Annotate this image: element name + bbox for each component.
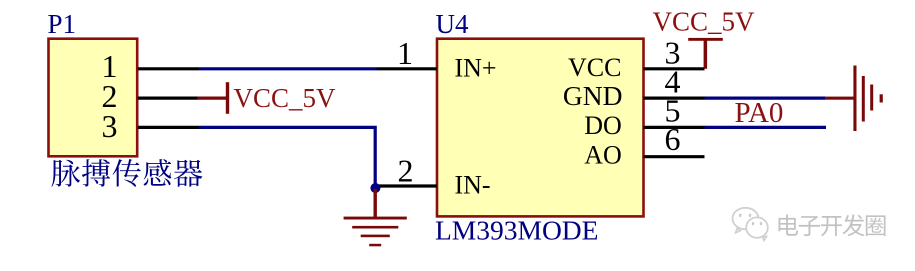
P1 pin 1 bbox=[102, 48, 200, 84]
watermark wechat logo bbox=[733, 208, 768, 241]
P1 pin 3 bbox=[102, 108, 200, 144]
U4 pin 6 AO bbox=[584, 121, 704, 169]
U4 pin 5 DO bbox=[584, 92, 704, 140]
U4 pin 4 GND bbox=[563, 64, 705, 111]
svg-text:DO: DO bbox=[584, 111, 622, 140]
svg-text:IN+: IN+ bbox=[455, 53, 497, 82]
svg-text:P1: P1 bbox=[48, 9, 77, 39]
power port signal ground (earth) bbox=[826, 66, 883, 132]
svg-text:U4: U4 bbox=[436, 9, 469, 39]
P1 part label 脉搏传感器 bbox=[52, 159, 203, 187]
connector P1 bbox=[49, 39, 138, 157]
svg-text:3: 3 bbox=[102, 108, 118, 144]
svg-text:6: 6 bbox=[665, 121, 681, 157]
wire P1 pin 3 down to junction bbox=[199, 127, 375, 186]
wire U4 DO net PA0 bbox=[705, 126, 827, 129]
U4 pin 2 IN- bbox=[379, 152, 491, 199]
wire U4 GND to signal ground bbox=[705, 96, 826, 99]
op-amp module U4 bbox=[437, 39, 644, 217]
svg-text:2: 2 bbox=[398, 152, 414, 188]
junction dot bbox=[370, 183, 380, 193]
svg-text:VCC_5V: VCC_5V bbox=[653, 6, 756, 36]
svg-text:VCC: VCC bbox=[568, 53, 621, 82]
U4 pin 1 IN+ bbox=[377, 35, 497, 82]
svg-text:1: 1 bbox=[397, 35, 413, 71]
P1 pin 2 bbox=[102, 78, 198, 114]
power port VCC_5V at P1 pin 2 bbox=[198, 82, 337, 114]
U4 pin 3 VCC bbox=[568, 34, 704, 82]
svg-text:VCC_5V: VCC_5V bbox=[234, 83, 337, 113]
svg-text:LM393MODE: LM393MODE bbox=[435, 215, 598, 246]
watermark text 电子开发圈 bbox=[779, 214, 886, 236]
svg-text:GND: GND bbox=[563, 80, 623, 111]
svg-text:PA0: PA0 bbox=[735, 97, 784, 129]
svg-text:AO: AO bbox=[584, 140, 622, 169]
wire junction to U4 IN- bbox=[374, 184, 379, 187]
power port VCC_5V at U4 pin 3 bbox=[653, 6, 756, 69]
wire P1 pin 1 to U4 IN+ bbox=[199, 67, 377, 70]
svg-text:IN-: IN- bbox=[455, 171, 491, 200]
ground symbol bbox=[344, 189, 407, 246]
